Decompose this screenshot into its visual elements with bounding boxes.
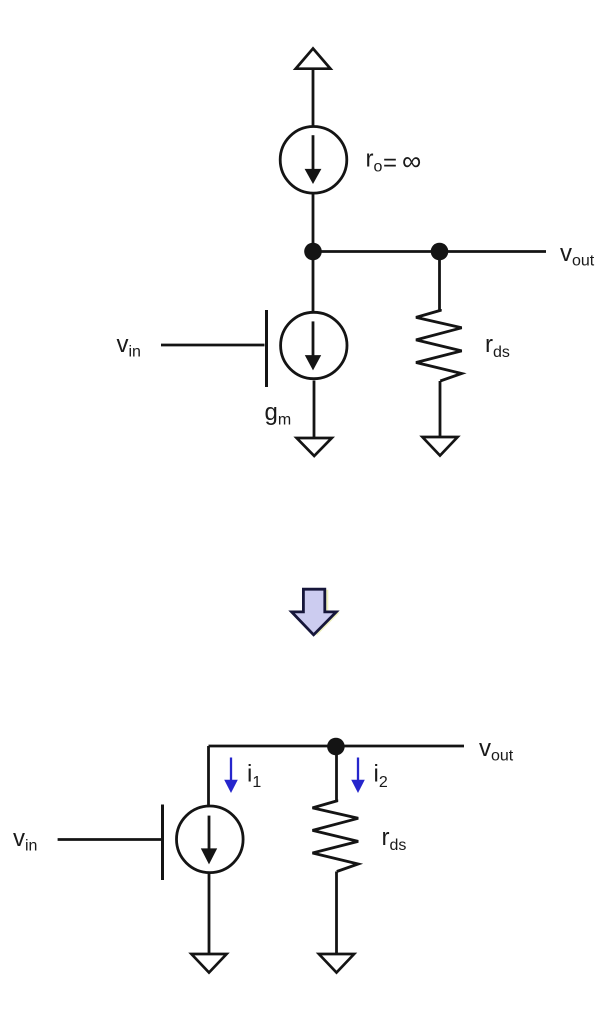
wire gm source to ground: [313, 381, 316, 439]
controlled source gm arrow: [305, 321, 321, 370]
controlled source gm (circle): [281, 312, 347, 378]
wire node C to vout (bottom): [209, 745, 465, 748]
controlled source gm arrow (bottom): [201, 816, 217, 865]
ground (top right, down triangle): [422, 437, 457, 456]
gate bar of gm stage (bottom): [161, 805, 164, 881]
gate bar of gm stage (top): [265, 310, 268, 387]
wire node A to gm source: [312, 251, 315, 312]
current arrow i1 (blue): [224, 758, 238, 794]
wire resistor rds to ground (bottom): [335, 872, 338, 955]
wire gm source to ground (bottom): [208, 873, 211, 954]
controlled source gm (bottom circle): [177, 806, 244, 873]
svg-text:∞: ∞: [402, 146, 421, 176]
wire node C to resistor rds (bottom): [335, 746, 338, 801]
wire node A to vout: [313, 250, 546, 253]
ground (bottom right, down triangle): [319, 954, 354, 973]
wire current source to node A: [312, 194, 315, 251]
wire node C to gm source (bottom): [207, 746, 210, 806]
node B junction dot: [431, 243, 449, 261]
ground (top left, down triangle): [297, 438, 332, 456]
current source ro (circle): [280, 127, 347, 194]
svg-text:=: =: [383, 150, 397, 177]
wire node B to resistor rds (top): [438, 251, 441, 311]
node C junction dot: [327, 738, 345, 756]
wire vin to gate (bottom): [58, 838, 161, 841]
supply symbol (up triangle): [296, 49, 331, 69]
resistor rds (bottom zigzag): [313, 800, 359, 872]
wire supply to current source: [312, 69, 315, 126]
wire vin to gate (top): [161, 344, 265, 347]
resistor rds (top zigzag): [416, 309, 462, 381]
current arrow i2 (blue): [351, 758, 365, 794]
wire resistor rds to ground (top): [439, 381, 442, 437]
transform block arrow shadow: [295, 590, 340, 636]
transform block arrow (down): [292, 589, 337, 635]
node A junction dot: [304, 243, 322, 261]
ground (bottom left, down triangle): [191, 954, 226, 973]
current source ro arrow: [305, 135, 322, 184]
